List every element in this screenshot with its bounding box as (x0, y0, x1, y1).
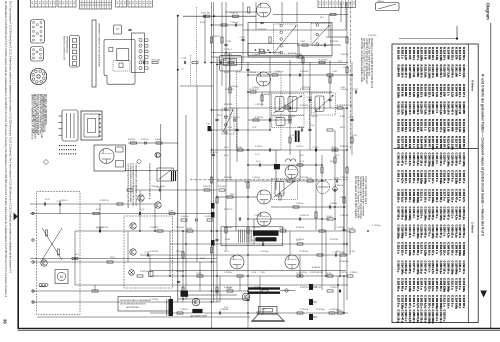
svg-text:C 212 10 n: C 212 10 n (423, 189, 427, 203)
wire (211, 149, 346, 151)
svg-text:C 158: C 158 (245, 297, 250, 299)
resistor (221, 37, 223, 43)
svg-text:R 210 33 k: R 210 33 k (454, 119, 458, 133)
svg-text:C 207 25 u: C 207 25 u (404, 189, 408, 203)
rail y14 (273, 13, 348, 15)
svg-text:C 212 10 n: C 212 10 n (454, 278, 458, 292)
svg-text:C 204 4,7n: C 204 4,7n (408, 310, 412, 324)
svg-text:M: M (60, 275, 63, 279)
svg-text:R 246: R 246 (160, 186, 165, 188)
svg-text:R 202 1 k: R 202 1 k (423, 119, 427, 131)
tuner dashed vline (190, 55, 192, 86)
svg-text:C 233 0,1: C 233 0,1 (350, 272, 358, 274)
svg-text:C 210 500p: C 210 500p (462, 242, 466, 256)
svg-text:R 211 5,6k: R 211 5,6k (400, 102, 404, 116)
junction dots (211, 62, 213, 64)
svg-text:R 249: R 249 (349, 228, 354, 230)
svg-text:C 226 10n: C 226 10n (180, 309, 188, 311)
svg-text:C 205 22 n: C 205 22 n (450, 225, 454, 239)
svg-text:R 211 2,2k: R 211 2,2k (250, 89, 259, 91)
svg-text:C 218 125p: C 218 125p (400, 295, 404, 309)
svg-text:C 209 220p: C 209 220p (450, 261, 454, 275)
svg-text:C 205 22 n: C 205 22 n (420, 295, 424, 309)
resistor R 249 (349, 230, 355, 232)
svg-text:C 247 5n: C 247 5n (130, 186, 137, 188)
svg-text:R 265: R 265 (169, 210, 174, 212)
transistor T3 (130, 223, 136, 229)
svg-text:C 213 5 u: C 213 5 u (458, 278, 462, 290)
svg-text:R 216 270: R 216 270 (431, 84, 435, 97)
svg-text:R 205 10 k: R 205 10 k (435, 119, 439, 133)
svg-text:C 201 10 p: C 201 10 p (412, 278, 416, 292)
svg-text:C 60: C 60 (206, 123, 210, 125)
svg-text:R 203 2,2k: R 203 2,2k (427, 119, 431, 133)
connector bank ST2 (58, 0, 76, 7)
wire (219, 276, 221, 302)
terminal (32, 301, 34, 303)
wire (99, 204, 101, 231)
svg-text:C 218 125p: C 218 125p (408, 278, 412, 292)
IF transformer F3 (272, 94, 305, 116)
tube V9 (230, 255, 244, 269)
svg-text:R 210 33 k: R 210 33 k (397, 102, 401, 116)
svg-text:R 213 15 k: R 213 15 k (454, 136, 458, 150)
svg-text:C 217 8 u: C 217 8 u (435, 207, 439, 219)
connector bank ST3 (116, 0, 127, 7)
output transformer box (221, 227, 283, 246)
svg-text:R 212 120k: R 212 120k (462, 119, 466, 133)
svg-text:C 208 50 u: C 208 50 u (454, 242, 458, 256)
svg-text:C 204 4,7n: C 204 4,7n (431, 261, 435, 275)
svg-text:C/FB 2x: C/FB 2x (377, 1, 384, 3)
svg-text:R 213 15 k: R 213 15 k (431, 65, 435, 79)
resistor R 228 (337, 107, 343, 109)
svg-text:R 204 470: R 204 470 (443, 102, 447, 115)
svg-text:UKW DIPOL 240 OHM BANDKABEL: UKW DIPOL 240 OHM BANDKABEL (44, 94, 47, 125)
svg-text:C 202 47 p: C 202 47 p (454, 189, 458, 203)
resistor (216, 287, 218, 293)
svg-text:C 204 4,7n: C 204 4,7n (447, 225, 451, 239)
wire (340, 2, 342, 22)
svg-text:C 216 68 p: C 216 68 p (408, 261, 412, 275)
svg-text:C 204 4n7: C 204 4n7 (231, 117, 240, 119)
junction (213, 15, 215, 17)
svg-text:C 202 47 p: C 202 47 p (400, 153, 404, 167)
svg-text:R 203 2,2k: R 203 2,2k (439, 102, 443, 116)
svg-text:C 204 4,7n: C 204 4,7n (423, 278, 427, 292)
svg-text:R 215 82 k: R 215 82 k (462, 136, 466, 150)
svg-text:C 209: C 209 (300, 41, 305, 43)
svg-text:R 101 180: R 101 180 (152, 59, 161, 61)
output transformer secondary (253, 230, 279, 236)
svg-text:C 247 5n: C 247 5n (310, 116, 317, 118)
wire (154, 204, 156, 231)
svg-text:C 201 10 p: C 201 10 p (458, 170, 462, 184)
svg-text:225 V: 225 V (217, 115, 222, 117)
svg-text:C 241: C 241 (352, 135, 357, 137)
svg-text:R 239 10k: R 239 10k (296, 227, 304, 229)
svg-text:C 211 2 n: C 211 2 n (450, 278, 454, 290)
svg-text:R 211 5,6k: R 211 5,6k (435, 47, 439, 61)
svg-text:B: B (116, 28, 120, 30)
capacitor C 140 (212, 153, 215, 155)
svg-text:R 217 3,3k: R 217 3,3k (400, 136, 404, 150)
extra rail (297, 44, 341, 46)
table divider horizontal (394, 148, 479, 150)
terminal (32, 261, 34, 263)
IF transformer F2 (311, 24, 331, 46)
svg-text:C 233 0,1: C 233 0,1 (254, 215, 262, 217)
svg-text:R 216 270: R 216 270 (397, 136, 401, 149)
tuner box (220, 55, 242, 71)
svg-text:C 215 30 p: C 215 30 p (404, 261, 408, 275)
svg-text:R 246 33k: R 246 33k (340, 146, 348, 148)
svg-text:C 212 30p: C 212 30p (272, 117, 280, 119)
svg-text:C 208 50 u: C 208 50 u (400, 207, 404, 221)
svg-text:R 226 1k: R 226 1k (96, 227, 103, 229)
wire (30, 213, 211, 215)
svg-text:R 206 47 k: R 206 47 k (450, 102, 454, 116)
svg-text:R 226 1k: R 226 1k (255, 146, 262, 148)
transistor bottom 2 (242, 293, 250, 301)
svg-text:C 208 50 u: C 208 50 u (416, 170, 420, 184)
svg-text:C-Werte: C-Werte (470, 222, 474, 233)
svg-text:C 210 500p: C 210 500p (423, 170, 427, 184)
svg-text:R 215 82 k: R 215 82 k (404, 119, 408, 133)
svg-text:R 218 56 k: R 218 56 k (404, 136, 408, 150)
svg-text:R 205 10 k: R 205 10 k (458, 84, 462, 98)
wire (248, 218, 330, 220)
svg-text:R 207 220k: R 207 220k (431, 136, 435, 150)
svg-text:R 206 47 k: R 206 47 k (427, 136, 431, 150)
svg-text:R 220 30 k: R 220 30 k (319, 59, 328, 61)
extra rail (248, 119, 290, 121)
resistor R 233 (332, 149, 338, 151)
wire (345, 2, 347, 30)
wire (30, 258, 217, 260)
svg-text:R 246: R 246 (225, 239, 230, 241)
svg-text:C 247 5n: C 247 5n (296, 146, 303, 148)
svg-text:LAB.KADMINT 300MV: LAB.KADMINT 300MV (190, 315, 208, 318)
IF transformer F5 (272, 179, 298, 200)
svg-text:R 252: R 252 (340, 252, 345, 254)
svg-text:R 209 680: R 209 680 (462, 102, 466, 115)
wire (37, 316, 250, 318)
svg-text:C 207 25 u: C 207 25 u (397, 207, 401, 221)
svg-text:R 230: R 230 (237, 147, 242, 149)
svg-text:C 214 100u: C 214 100u (454, 295, 458, 309)
extra rail (248, 164, 322, 166)
dark component (169, 299, 174, 316)
svg-text:R 209 680: R 209 680 (427, 47, 431, 60)
svg-text:C 205 22 n: C 205 22 n (435, 261, 439, 275)
svg-text:R- und C-Werte der gedruckten: R- und C-Werte der gedruckten Platten — … (480, 74, 484, 237)
extra rail (271, 206, 346, 208)
svg-text:R 216 270: R 216 270 (408, 119, 412, 132)
svg-text:R 212 120k: R 212 120k (450, 136, 454, 150)
dash-dot vline mid (309, 88, 311, 130)
svg-text:R 214 390: R 214 390 (412, 102, 416, 115)
header arrow (480, 291, 487, 298)
tube socket view B (31, 47, 44, 62)
svg-text:R 236 680: R 236 680 (224, 287, 232, 289)
svg-text:R 208 1 M: R 208 1 M (423, 47, 427, 60)
left page rule (17, 0, 19, 329)
wire (196, 86, 198, 262)
svg-text:R 208 1 M: R 208 1 M (435, 136, 439, 149)
svg-text:R 210 33 k: R 210 33 k (431, 47, 435, 61)
svg-text:R 211 5,6k: R 211 5,6k (458, 119, 462, 133)
svg-text:LAUFWERK / CHASSIS OF RECORD P: LAUFWERK / CHASSIS OF RECORD PLAYER (98, 23, 101, 68)
capacitor (128, 28, 131, 30)
svg-text:C 208 50 u: C 208 50 u (431, 295, 435, 309)
svg-text:C 209 50u: C 209 50u (340, 54, 348, 56)
tube V6 (257, 212, 271, 226)
svg-text:C 219 4n7: C 219 4n7 (252, 177, 260, 179)
svg-text:R 231 220: R 231 220 (330, 41, 338, 43)
choke (171, 171, 173, 181)
wire (247, 62, 249, 328)
resistor (92, 290, 98, 292)
svg-text:R 213 15 k: R 213 15 k (397, 119, 401, 133)
svg-text:C 230: C 230 (313, 147, 318, 149)
svg-text:R 210 33 k: R 210 33 k (408, 84, 412, 98)
component row y143 (128, 142, 178, 144)
svg-text:C 218 125p: C 218 125p (423, 242, 427, 256)
transistor bottom (192, 298, 200, 306)
svg-text:C 209 220p: C 209 220p (443, 278, 447, 292)
svg-text:R 261: R 261 (327, 273, 332, 275)
magic eye EM84 (317, 181, 330, 194)
IF block rect lower (248, 44, 299, 58)
table divider vertical (467, 44, 469, 323)
capacitor C 230 (314, 148, 316, 151)
svg-text:C 201 20p: C 201 20p (218, 59, 227, 61)
svg-text:R 216 270: R 216 270 (443, 65, 447, 78)
svg-text:R 224: R 224 (285, 105, 290, 107)
svg-text:KURZWELLE AM LW-MW BEREICH NUR: KURZWELLE AM LW-MW BEREICH NUR BEI FB (370, 38, 373, 89)
resistor R 267 (227, 290, 233, 292)
tube V5 (257, 190, 271, 204)
svg-text:C 212 30p: C 212 30p (316, 309, 324, 311)
svg-text:C 213 5 u: C 213 5 u (404, 242, 408, 254)
svg-text:R 207 220k: R 207 220k (408, 65, 412, 79)
svg-text:C 202 47 p: C 202 47 p (408, 295, 412, 309)
svg-text:6,3 V~: 6,3 V~ (224, 116, 229, 118)
resistor (329, 312, 335, 314)
svg-text:R 204 470: R 204 470 (420, 136, 424, 149)
svg-text:C 233 0,1: C 233 0,1 (330, 287, 338, 289)
svg-text:C 207 25 u: C 207 25 u (412, 170, 416, 184)
resistor (327, 129, 333, 131)
mains transformer core (81, 111, 102, 140)
wire (321, 155, 323, 290)
svg-text:R 43 1/2k: R 43 1/2k (203, 186, 211, 188)
capacitor C 216 (300, 128, 302, 131)
svg-text:R 44 220: R 44 220 (218, 186, 225, 188)
wire (329, 60, 331, 108)
capacitor (268, 148, 270, 151)
svg-text:R 209 680: R 209 680 (439, 136, 443, 149)
svg-text:R 210 33 k: R 210 33 k (443, 136, 447, 150)
svg-text:C 215 30 p: C 215 30 p (443, 170, 447, 184)
svg-text:R 209 680: R 209 680 (450, 119, 454, 132)
lamp symbol (129, 270, 135, 276)
record player body (104, 40, 135, 85)
svg-text:C 218 125p: C 218 125p (462, 153, 466, 167)
svg-text:R 214 390: R 214 390 (423, 84, 427, 97)
svg-text:C 215 30 p: C 215 30 p (427, 207, 431, 221)
wire (75, 284, 348, 286)
svg-text:R 205 10 k: R 205 10 k (447, 102, 451, 116)
capacitor C 257 (158, 188, 160, 191)
record player small square (109, 47, 113, 51)
svg-text:R 201 100: R 201 100 (397, 47, 401, 60)
capacitor C 105 (241, 38, 244, 40)
resistor (287, 180, 293, 182)
wire (212, 52, 282, 54)
svg-text:C 211 2 n: C 211 2 n (420, 189, 424, 201)
wire (261, 92, 263, 106)
svg-text:C 211 2 n: C 211 2 n (427, 170, 431, 182)
svg-text:C 207 25 u: C 207 25 u (427, 295, 431, 309)
svg-text:C 206 0,1u: C 206 0,1u (447, 242, 451, 256)
svg-text:Die Widerstände R 312 390 Ohm: Die Widerstände R 312 390 Ohm und R 313 … (4, 1, 7, 298)
wire (150, 270, 346, 272)
svg-text:R 212 120k: R 212 120k (427, 65, 431, 79)
wire (139, 190, 141, 231)
svg-text:C 219 4n7: C 219 4n7 (252, 54, 260, 56)
svg-text:Diagram: Diagram (485, 3, 490, 20)
resistor (317, 254, 323, 256)
resistor (182, 252, 184, 258)
resistor R 224 (285, 107, 291, 109)
capacitor C 238 (335, 179, 337, 182)
svg-text:C 215 30 p: C 215 30 p (412, 242, 416, 256)
svg-text:C 216 68 p: C 216 68 p (431, 207, 435, 221)
svg-text:C 212 30p: C 212 30p (372, 225, 380, 227)
svg-text:R 216: R 216 (200, 22, 205, 24)
capacitor C140 (183, 61, 185, 64)
svg-text:C 207 25 u: C 207 25 u (450, 242, 454, 256)
svg-text:C 210 500p: C 210 500p (454, 261, 458, 275)
svg-text:R 216 47k: R 216 47k (224, 177, 232, 179)
wire (239, 276, 241, 291)
svg-text:C 105: C 105 (240, 37, 245, 39)
wire (180, 85, 213, 87)
svg-text:R 239 10k: R 239 10k (335, 185, 343, 187)
transistor T4 (130, 249, 136, 255)
svg-text:R 102 1k: R 102 1k (230, 12, 238, 14)
svg-text:C 247 5n: C 247 5n (340, 272, 347, 274)
svg-text:R 209 680: R 209 680 (404, 84, 408, 97)
ferrite antenna (248, 287, 280, 289)
svg-text:R 231 220: R 231 220 (368, 35, 376, 37)
svg-text:C 216 68 p: C 216 68 p (439, 189, 443, 203)
connector bank ST1 (31, 0, 57, 7)
resistor R 101 (152, 61, 158, 63)
capacitor C 155 (308, 98, 311, 100)
svg-text:C 218 125p: C 218 125p (439, 207, 443, 221)
svg-text:R 257: R 257 (197, 273, 202, 275)
svg-text:C 210 500p: C 210 500p (408, 207, 412, 221)
svg-text:R 218 56 k: R 218 56 k (427, 102, 431, 116)
wire (182, 230, 184, 302)
svg-text:R 226 1k: R 226 1k (288, 116, 295, 118)
wire (30, 203, 155, 205)
svg-text:R 231 220: R 231 220 (224, 209, 232, 211)
wire (140, 254, 348, 256)
svg-text:R 233: R 233 (332, 147, 337, 149)
schematic left bus (177, 15, 179, 302)
svg-text:C 205 22 n: C 205 22 n (458, 207, 462, 221)
extra wire (343, 150, 345, 231)
svg-text:C 212 30p: C 212 30p (150, 299, 158, 301)
svg-text:C 217 8 u: C 217 8 u (397, 295, 401, 307)
svg-text:R 216 47k: R 216 47k (150, 227, 158, 229)
svg-text:C 216 68 p: C 216 68 p (462, 295, 466, 309)
svg-text:C 201 10 p: C 201 10 p (427, 242, 431, 256)
svg-text:C 211 2 n: C 211 2 n (458, 261, 462, 273)
resistor (289, 117, 291, 123)
wire (349, 231, 351, 255)
svg-text:C 211 2 n: C 211 2 n (435, 310, 439, 322)
svg-text:R 204 470: R 204 470 (397, 65, 401, 78)
wire (225, 2, 227, 250)
svg-text:C 226 10n: C 226 10n (230, 86, 238, 88)
capacitor C 158 (246, 298, 249, 300)
svg-text:C 206 0,1u: C 206 0,1u (416, 310, 420, 324)
wire (212, 2, 214, 302)
tube socket view C (round) (30, 68, 46, 84)
svg-text:R 216: R 216 (200, 258, 205, 260)
svg-text:C 202 47 p: C 202 47 p (462, 170, 466, 184)
svg-text:4 SENDERWAHL DRUCKTASTEN AGGRE: 4 SENDERWAHL DRUCKTASTEN AGGREGAT (134, 163, 137, 206)
wire (289, 231, 291, 255)
resistor R 261 (327, 275, 333, 277)
svg-text:R 201 100: R 201 100 (431, 102, 435, 115)
svg-text:C 226 10n: C 226 10n (275, 71, 283, 73)
svg-text:C 205 22 n: C 205 22 n (427, 278, 431, 292)
wire (328, 15, 330, 37)
svg-text:C 223: C 223 (353, 89, 358, 91)
svg-text:REMOTE CONTROL UNIT: REMOTE CONTROL UNIT (63, 36, 65, 61)
svg-text:R 216 47k: R 216 47k (224, 54, 232, 56)
svg-text:The 2 fixed resistors R 312 (3: The 2 fixed resistors R 312 (390 ohms) a… (9, 1, 12, 274)
svg-text:C 207 25 u: C 207 25 u (435, 278, 439, 292)
connector bank ST4 (318, 0, 356, 8)
svg-text:C 219 4n7: C 219 4n7 (176, 271, 184, 273)
tube V2 (257, 72, 271, 86)
svg-text:C 211 2 n: C 211 2 n (404, 225, 408, 237)
small box near banks (114, 25, 122, 34)
svg-text:C 217 8 u: C 217 8 u (404, 278, 408, 290)
resistor R 257 (197, 275, 203, 277)
svg-text:C 207 25 u: C 207 25 u (458, 225, 462, 239)
diamond DIN symbol left (43, 159, 48, 164)
wire (149, 255, 151, 276)
svg-text:C 201 10 p: C 201 10 p (397, 310, 401, 324)
svg-text:C 212 10 n: C 212 10 n (439, 153, 443, 167)
svg-text:C 216 68 p: C 216 68 p (454, 153, 458, 167)
svg-text:C 206 0,1u: C 206 0,1u (400, 189, 404, 203)
svg-text:C 219 4n7: C 219 4n7 (176, 227, 184, 229)
svg-text:C 217 8 u: C 217 8 u (458, 153, 462, 165)
svg-text:C 216 68 p: C 216 68 p (416, 242, 420, 256)
wire (399, 38, 457, 40)
svg-text:R 215 82 k: R 215 82 k (427, 84, 431, 98)
svg-text:C 201 10 p: C 201 10 p (450, 189, 454, 203)
